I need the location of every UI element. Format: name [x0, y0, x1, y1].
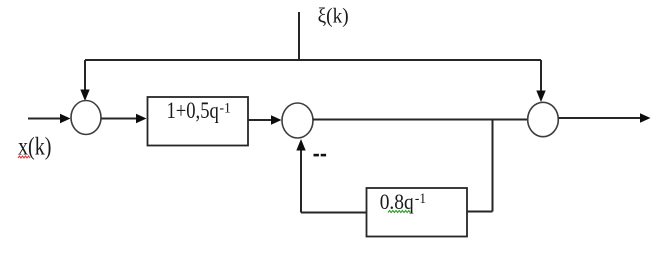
label xi(k)	[318, 3, 349, 27]
svg-text:1+0,5q: 1+0,5q	[167, 98, 219, 124]
svg-text:-1: -1	[415, 191, 426, 207]
green grammar squiggle under 0.8	[388, 211, 410, 213]
summing junction S1	[71, 101, 101, 135]
svg-text:ξ(k): ξ(k)	[318, 3, 349, 27]
wire: input arrow x(k) into S1	[28, 114, 71, 123]
wire: output arrow from S3	[559, 113, 651, 122]
wire: feedback bottom line from B2 left toward S2	[301, 212, 366, 214]
wire: S2 to summing junction S3	[313, 119, 527, 121]
block B1: 1+0,5q^-1	[148, 97, 249, 146]
label x(k)	[18, 134, 52, 161]
wire: right vertical drop with arrow into summing junction S3	[536, 60, 545, 102]
svg-text:-1: -1	[220, 100, 231, 116]
red spellcheck squiggle under x	[18, 156, 30, 158]
wire: B1 to summing junction S2 with arrow	[248, 115, 282, 124]
block B2: 0.8q^-1	[367, 188, 468, 237]
summing junction S3	[528, 102, 559, 136]
label: minus sign (two dashes) below-right of S2	[314, 154, 327, 157]
wire: top feedforward line from node above S1 to node above S3	[85, 59, 541, 61]
wire: feedback up arrow into bottom of S2	[296, 139, 305, 213]
wire: feedback tap down from main line	[492, 120, 494, 212]
wire: S1 to block B1 with arrow	[101, 114, 147, 123]
summing junction S2	[282, 103, 313, 138]
wire: stub from tap to block B2 right side	[467, 211, 493, 213]
wire: left vertical drop with arrow into summing junction S1	[80, 60, 89, 101]
wire: xi(k) input stem down to top line	[298, 12, 300, 59]
